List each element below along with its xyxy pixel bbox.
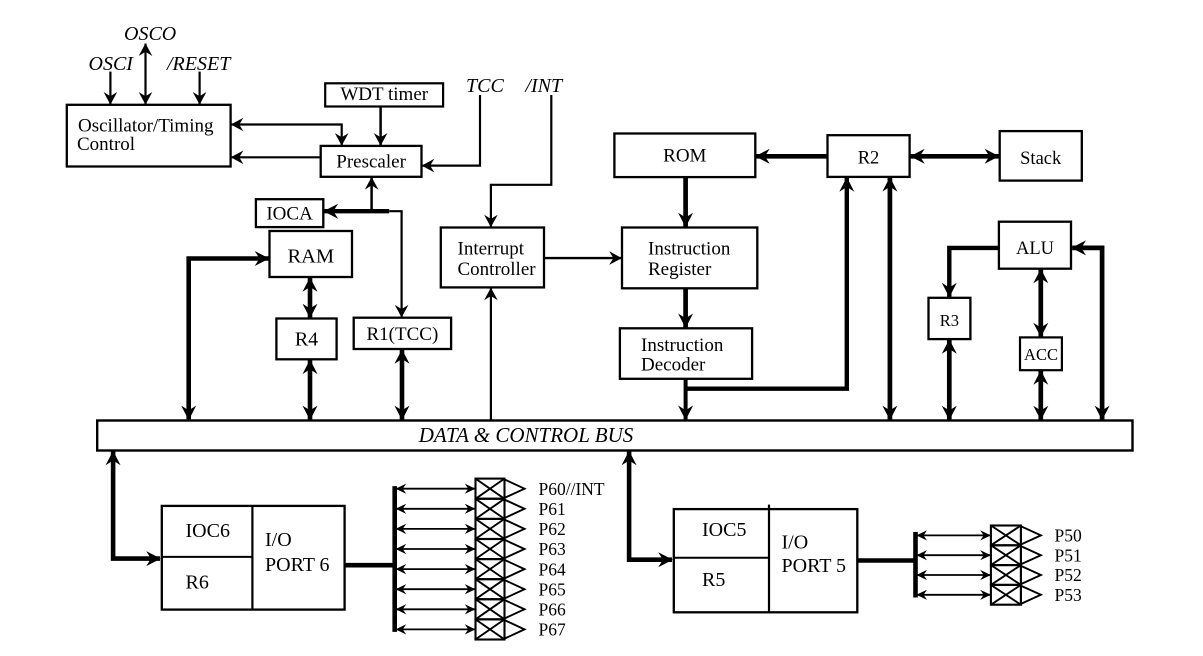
- label Stack: [1020, 149, 1062, 169]
- wire pin arrow P63: [396, 544, 476, 554]
- box WDT timer: [325, 83, 443, 106]
- svg-text:P64: P64: [539, 559, 566, 579]
- box RAM: [270, 231, 353, 277]
- svg-text:PORT 5: PORT 5: [782, 555, 847, 577]
- wire I/O PORT 5 to pin distribution line: [857, 558, 915, 563]
- label I/O PORT 6: [265, 529, 330, 576]
- svg-text:Decoder: Decoder: [641, 355, 706, 376]
- wire instruction decoder to bus: [678, 379, 693, 420]
- label RAM: [287, 246, 334, 268]
- wire /RESET into oscillator box: [193, 72, 207, 105]
- label R4: [295, 329, 318, 351]
- svg-text:R4: R4: [295, 329, 318, 351]
- wire R2 to bus bidirectional: [882, 177, 897, 420]
- pin cell symbol P62: [476, 519, 525, 539]
- wire bus to ALU right side: [1071, 240, 1109, 420]
- pin cell symbol P64: [476, 559, 525, 579]
- signal label /INT: [524, 75, 564, 97]
- pin label P50: [1055, 526, 1082, 546]
- svg-text:P52: P52: [1055, 565, 1082, 585]
- wire pin arrow P62: [396, 524, 476, 534]
- wire bus down to IOC5: [622, 451, 673, 568]
- wire pin arrow P60//INT: [396, 484, 476, 494]
- label R6: [186, 572, 209, 594]
- label R5: [702, 569, 725, 591]
- svg-text:R5: R5: [702, 569, 725, 591]
- svg-text:Register: Register: [648, 259, 712, 280]
- svg-text:P51: P51: [1055, 545, 1082, 565]
- svg-text:TCC: TCC: [466, 75, 504, 97]
- box Oscillator/Timing Control: [67, 105, 231, 167]
- pin cell symbol P50: [991, 526, 1041, 546]
- pin label P63: [539, 539, 566, 559]
- svg-text:P53: P53: [1055, 585, 1082, 605]
- wire pin arrow P53: [916, 590, 990, 600]
- pin cell symbol P65: [476, 579, 525, 599]
- pin label P51: [1055, 545, 1082, 565]
- wire instruction register to instruction decoder: [678, 288, 693, 328]
- wire pin arrow P67: [396, 624, 476, 634]
- label ACC: [1024, 345, 1058, 364]
- bus label DATA & CONTROL BUS: [418, 423, 634, 447]
- wire down to R1(TCC): [389, 211, 408, 317]
- box I/O PORT 6 with IOC6 and R6: [162, 506, 345, 610]
- label R1(TCC): [367, 324, 439, 345]
- svg-text:ACC: ACC: [1024, 345, 1058, 364]
- wire OSCI into oscillator box: [104, 72, 118, 105]
- wire bus down to IOC6: [106, 451, 161, 566]
- pin label P65: [539, 579, 566, 599]
- pin label P60//INT: [539, 479, 605, 499]
- pin label P52: [1055, 565, 1082, 585]
- pin cell symbol P52: [991, 565, 1041, 585]
- svg-text:P60//INT: P60//INT: [539, 479, 605, 499]
- pin cell symbol P66: [476, 599, 525, 619]
- label R3: [940, 311, 959, 330]
- box I/O PORT 5 with IOC5 and R5: [674, 509, 858, 612]
- wire ALU to ACC bidirectional: [1033, 269, 1048, 338]
- wire instruction decoder branch to R2: [686, 177, 855, 389]
- svg-text:P50: P50: [1055, 526, 1082, 546]
- wire R4 to bus bidirectional: [303, 360, 318, 421]
- svg-text:R6: R6: [186, 572, 209, 594]
- svg-text:Controller: Controller: [458, 259, 537, 280]
- box ALU: [999, 222, 1071, 269]
- svg-text:Instruction: Instruction: [641, 335, 724, 356]
- wire interrupt controller to instruction register: [544, 251, 622, 265]
- wire junction up into prescaler: [365, 177, 379, 211]
- divider lines inside port 6 box: [162, 506, 253, 610]
- svg-text:Instruction: Instruction: [648, 239, 731, 260]
- wire bus up to interrupt controller: [484, 288, 498, 421]
- wire R2 to Stack bidirectional: [910, 149, 1000, 164]
- pin cell symbol P67: [476, 619, 525, 639]
- svg-text:I/O: I/O: [782, 532, 809, 554]
- svg-text:R3: R3: [940, 311, 959, 330]
- label WDT timer: [340, 84, 428, 105]
- label I/O PORT 5: [782, 532, 847, 578]
- wire oscillator to prescaler upper: [231, 118, 349, 146]
- wire bus to RAM: [181, 251, 269, 420]
- wire thick line into IOCA: [324, 204, 390, 219]
- pin label P61: [539, 499, 566, 519]
- data and control bus bar: [97, 421, 1132, 451]
- pin cell symbol P61: [476, 499, 525, 519]
- pin label P66: [539, 600, 566, 620]
- pin cell symbol P51: [991, 545, 1041, 565]
- pin label P67: [539, 620, 566, 640]
- label Instruction Decoder: [641, 335, 724, 376]
- label Interrupt Controller: [458, 239, 537, 281]
- pin label P64: [539, 559, 566, 579]
- box IOCA: [256, 199, 323, 227]
- svg-text:PORT 6: PORT 6: [265, 554, 330, 576]
- label IOC6: [186, 520, 230, 542]
- box R3: [929, 298, 971, 339]
- svg-text:Prescaler: Prescaler: [336, 152, 406, 173]
- wire ACC to bus bidirectional: [1033, 370, 1048, 420]
- svg-text:OSCO: OSCO: [124, 23, 176, 45]
- wire RAM to R4 bidirectional: [303, 277, 318, 318]
- label ROM: [663, 146, 706, 167]
- pin cell symbol P60//INT: [476, 479, 525, 499]
- pin label P62: [539, 519, 566, 539]
- wire prescaler to oscillator lower: [231, 151, 321, 165]
- svg-text:P61: P61: [539, 499, 566, 519]
- box R2: [828, 135, 910, 177]
- wire port 6 pin distribution line: [392, 486, 397, 632]
- signal label /RESET: [166, 53, 232, 75]
- label Oscillator/Timing Control: [77, 116, 214, 156]
- wire pin arrow P64: [396, 564, 476, 574]
- svg-text:Control: Control: [77, 134, 135, 155]
- wire OSCO bidirectional: [139, 43, 153, 104]
- box Prescaler: [321, 146, 422, 177]
- svg-text:Stack: Stack: [1020, 149, 1062, 169]
- svg-text:P67: P67: [539, 620, 566, 640]
- svg-text:I/O: I/O: [265, 529, 292, 551]
- svg-text:IOC6: IOC6: [186, 520, 230, 542]
- wire I/O PORT 6 to pin distribution line: [345, 563, 395, 568]
- signal label OSCI: [89, 53, 135, 75]
- svg-text:Interrupt: Interrupt: [458, 239, 525, 260]
- wire R3 to bus bidirectional: [942, 339, 957, 420]
- signal label OSCO: [124, 23, 176, 45]
- wire pin arrow P52: [916, 570, 990, 580]
- divider lines inside port 5 box: [674, 505, 769, 613]
- label R2: [858, 149, 880, 169]
- wire WDT timer to prescaler: [374, 107, 388, 146]
- wire /INT into interrupt controller: [484, 95, 551, 227]
- wire pin arrow P65: [396, 584, 476, 594]
- box R1(TCC): [354, 318, 451, 349]
- svg-text:P62: P62: [539, 519, 566, 539]
- box Interrupt Controller: [441, 228, 544, 288]
- wire pin arrow P51: [916, 550, 990, 560]
- signal label TCC: [466, 75, 504, 97]
- svg-text:RAM: RAM: [287, 246, 334, 268]
- label ALU: [1016, 239, 1054, 259]
- svg-text:DATA & CONTROL BUS: DATA & CONTROL BUS: [418, 423, 634, 447]
- label IOC5: [702, 519, 746, 541]
- box Instruction Register: [622, 228, 757, 289]
- svg-text:P63: P63: [539, 539, 566, 559]
- box Instruction Decoder: [620, 328, 752, 379]
- pin cell symbol P63: [476, 539, 525, 559]
- box R4: [276, 319, 336, 360]
- box Stack: [1000, 131, 1082, 181]
- wire ALU to R3: [942, 248, 999, 298]
- wire TCC into prescaler: [422, 95, 480, 172]
- wire pin arrow P66: [396, 604, 476, 614]
- label Prescaler: [336, 152, 406, 173]
- svg-text:ROM: ROM: [663, 146, 706, 167]
- svg-text:IOCA: IOCA: [266, 204, 313, 225]
- label IOCA: [266, 204, 313, 225]
- svg-text:WDT timer: WDT timer: [340, 84, 428, 105]
- wire R2 to ROM: [755, 149, 827, 164]
- box ROM: [614, 134, 755, 178]
- wire R1(TCC) to bus bidirectional: [395, 349, 410, 420]
- svg-text:/INT: /INT: [524, 75, 564, 97]
- wire pin arrow P50: [916, 530, 990, 540]
- pin label P53: [1055, 585, 1082, 605]
- svg-text:ALU: ALU: [1016, 239, 1054, 259]
- label Instruction Register: [648, 239, 731, 281]
- wire port 5 pin distribution line: [913, 532, 918, 598]
- svg-text:P65: P65: [539, 579, 566, 599]
- pin cell symbol P53: [991, 585, 1041, 605]
- box ACC: [1020, 337, 1062, 370]
- wire pin arrow P61: [396, 504, 476, 514]
- svg-text:P66: P66: [539, 600, 566, 620]
- svg-text:R1(TCC): R1(TCC): [367, 324, 439, 345]
- svg-text:R2: R2: [858, 149, 880, 169]
- svg-text:IOC5: IOC5: [702, 519, 746, 541]
- wire ROM to instruction register: [678, 177, 693, 227]
